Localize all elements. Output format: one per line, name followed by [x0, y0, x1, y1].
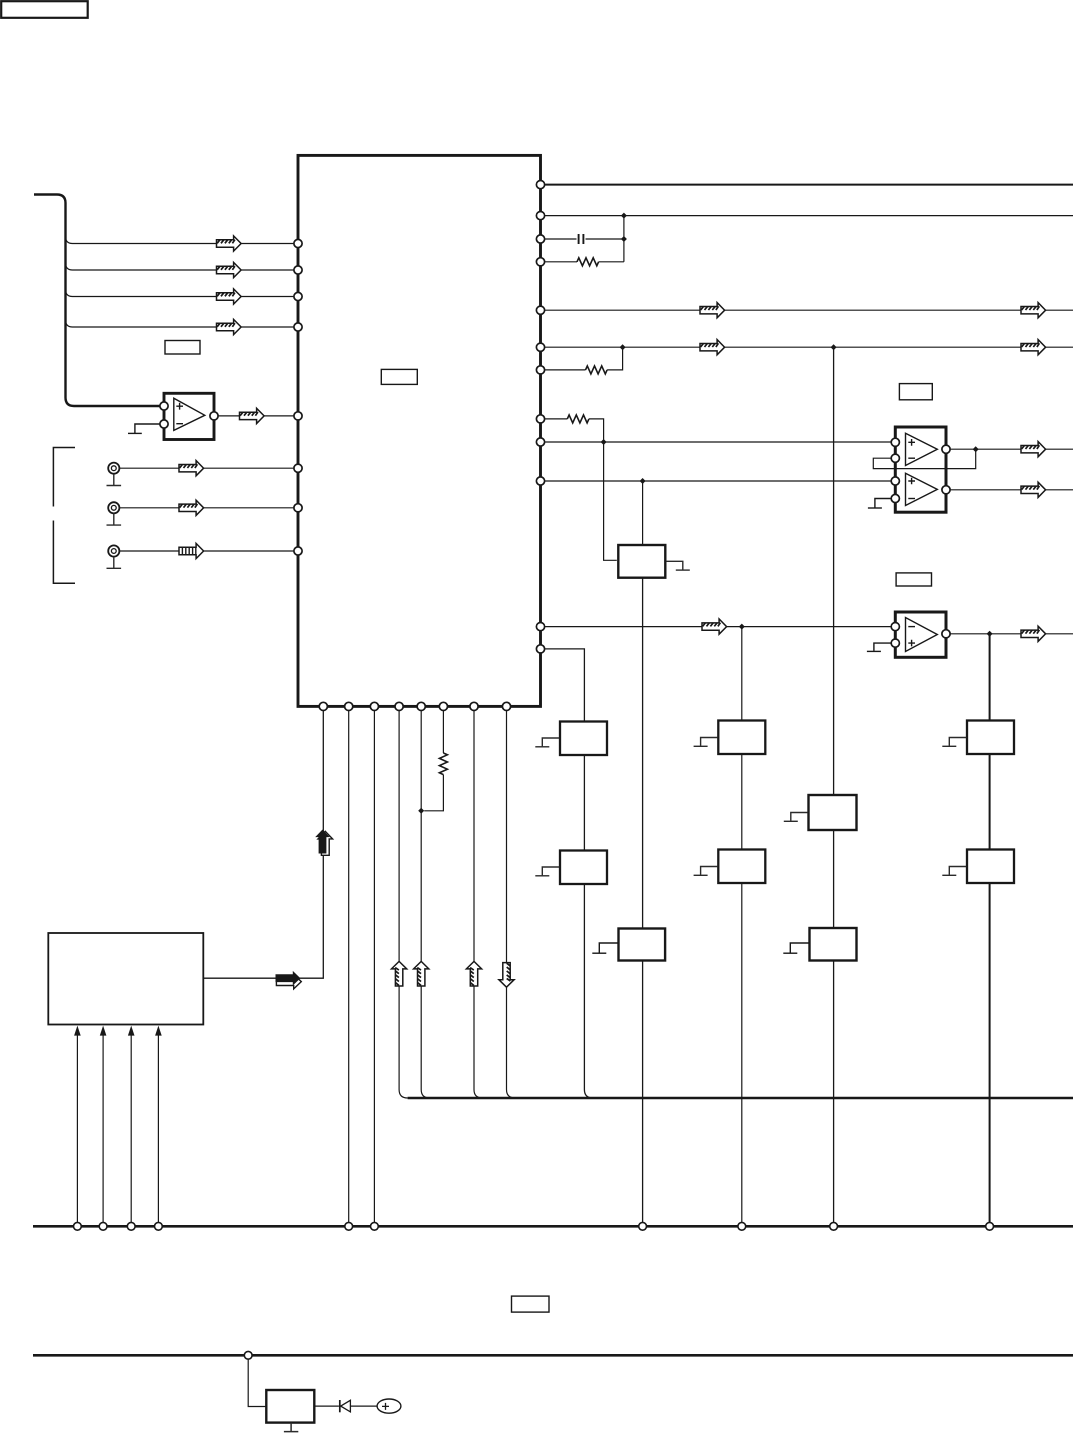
RCA jack J2	[108, 502, 119, 513]
wire: PS block to diode D1	[315, 1405, 339, 1407]
signal arrow on line B right	[1021, 340, 1046, 355]
signal arrow on U2b output	[1021, 482, 1046, 497]
signal arrow up on pin4 line	[392, 961, 407, 986]
signal arrow on branch 4	[217, 319, 242, 334]
IC left pin 2	[294, 266, 302, 274]
signal arrow on U2a output	[1021, 442, 1046, 457]
IC bottom pin b4	[395, 702, 403, 710]
resistor R4 on bottom pin 6	[424, 711, 443, 811]
resistor R2 branch	[545, 347, 623, 370]
ground at J3	[107, 557, 122, 569]
junction of feedback on U2a output	[973, 446, 979, 452]
wire: column from line E junction down	[741, 627, 743, 1223]
title box	[1, 1, 88, 18]
IC right pin r12	[536, 645, 544, 653]
op-amp U3 pin -	[891, 623, 899, 631]
op-amp U2a pin -	[891, 454, 899, 462]
supply rail (mid thick line)	[408, 1097, 1073, 1100]
IC left pin 3	[294, 292, 302, 300]
capacitor block C18	[619, 929, 666, 961]
signal arrow on J2 wire	[179, 500, 204, 515]
op-amp U1 box	[164, 393, 214, 439]
wire: branch 2 from rail to IC pin	[66, 263, 294, 270]
ground at C13	[942, 738, 966, 747]
signal arrow down on pin8 line	[499, 963, 514, 988]
resistor R3 branch	[545, 419, 617, 560]
op-amp U1 minus mark	[176, 423, 183, 425]
battery plus terminal B1	[377, 1399, 401, 1413]
op-amp U3 pin +	[891, 639, 899, 647]
junction on line D feeding capacitor block K1	[640, 478, 646, 484]
IC bottom pin b1	[319, 702, 327, 710]
wire: signal line A to right edge	[545, 309, 1073, 311]
power line bottom	[33, 1354, 1073, 1357]
bus node 2	[99, 1222, 107, 1230]
wire: bottom pin 1 down and left to MCU	[203, 711, 323, 979]
ground at C15	[535, 867, 559, 876]
wire: bus to MCU input 3	[130, 1035, 132, 1222]
IC bottom pin b5	[417, 702, 425, 710]
wire: line E to op-amp U3	[545, 626, 892, 628]
wire: branch 3 from rail to IC pin	[66, 290, 294, 297]
op-amp U3 output pin	[942, 630, 950, 638]
capacitor C1 row	[545, 238, 624, 240]
IC right pin r9	[536, 438, 544, 446]
IC bottom pin b7	[470, 702, 478, 710]
op-amp U3 box	[895, 612, 946, 657]
bus node 5	[345, 1222, 353, 1230]
op-amp U2a triangle	[906, 433, 938, 465]
IC left pin 5	[294, 412, 302, 420]
capacitor block C11	[560, 722, 607, 756]
ground at C12	[694, 738, 718, 747]
direction arrow (shadow style) up on pin1 line	[315, 830, 332, 856]
bus node 4	[155, 1222, 163, 1230]
op-amp U1 input pin +	[160, 402, 168, 410]
IC right pin r6	[536, 343, 544, 351]
IC right pin r8	[536, 415, 544, 423]
signal arrow on branch 1	[217, 236, 242, 251]
signal arrow on line A right	[1021, 303, 1046, 318]
wire: line C to op-amp U2a	[545, 441, 892, 443]
bus node 6	[371, 1222, 379, 1230]
op-amp U2a pin +	[891, 438, 899, 446]
ground at C19	[783, 943, 809, 953]
IC left pin 8	[294, 547, 302, 555]
IC right pin r2	[536, 212, 544, 220]
RCA jack J3	[108, 545, 119, 556]
RCA jack J1	[108, 463, 119, 474]
IC left pin 7	[294, 504, 302, 512]
IC right pin r4	[536, 258, 544, 266]
op-amp U1 triangle	[174, 398, 205, 430]
signal arrow on line B mid	[700, 340, 725, 355]
IC bottom pin b3	[370, 702, 378, 710]
op-amp U2b output pin	[942, 486, 950, 494]
wire: vertical joining C1/R1 to row 2	[623, 216, 625, 262]
capacitor block C15	[560, 851, 607, 885]
signal arrow on U3 output	[1021, 626, 1046, 641]
IC bottom pin b8	[502, 702, 510, 710]
wire: branch 4 from rail to IC pin	[66, 320, 294, 327]
wire: branch 1 from rail to IC pin	[66, 237, 294, 244]
IC bottom pin b2	[345, 702, 353, 710]
signal arrow on branch 3	[217, 289, 242, 304]
wire: power line to PS block	[248, 1359, 265, 1406]
signal arrow on J3 wire	[179, 543, 204, 558]
op-amp U2a output pin	[942, 445, 950, 453]
wire: line D to op-amp U2b	[545, 480, 892, 482]
capacitor block C12	[718, 721, 765, 755]
ground at C16	[694, 867, 718, 876]
power line node	[244, 1351, 252, 1359]
IC left pin 6	[294, 464, 302, 472]
signal arrow on U1 output	[240, 408, 265, 423]
direction arrow (shadow style) right on MCU output wire	[276, 971, 302, 989]
IC right pin r11	[536, 623, 544, 631]
op-amp U2a minus mark	[908, 457, 915, 459]
wire: U1 output to IC	[218, 415, 294, 417]
op-amp U2b minus mark	[908, 498, 915, 500]
ground at C17	[942, 867, 966, 876]
wire: block K1 down to bus	[642, 578, 644, 1223]
wire: bus to MCU input 1	[76, 1035, 78, 1222]
bus node 3	[127, 1222, 135, 1230]
capacitor block C16	[718, 850, 765, 884]
resistor R1 row	[545, 261, 624, 263]
label box above U2	[899, 384, 932, 400]
op-amp U2b pin -	[891, 494, 899, 502]
control bus line	[33, 1225, 1073, 1228]
wire: J2 to IC	[119, 507, 294, 509]
wire: bottom pin 2 down to bus	[348, 711, 350, 1223]
wire: bottom pin 4 down to supply rail	[399, 711, 408, 1099]
junction on U3 output	[987, 631, 993, 637]
IC right pin r1	[536, 181, 544, 189]
ground at C18	[592, 943, 618, 953]
capacitor block K1	[618, 545, 665, 578]
op-amp U1 output pin	[210, 412, 218, 420]
op-amp U2b triangle	[906, 473, 938, 505]
op-amp U2b pin +	[891, 477, 899, 485]
capacitor block C17	[967, 850, 1014, 884]
wire: bottom pin 5 down to supply rail	[421, 711, 430, 1099]
wire: IC right pin row 2	[545, 215, 1073, 217]
wire: bus to MCU input 2	[102, 1035, 104, 1222]
op-amp U1 input pin -	[160, 420, 168, 428]
bus node 8	[738, 1222, 746, 1230]
wire: line F turning down into column	[545, 649, 593, 1098]
wire: signal line B to right edge	[545, 346, 1073, 348]
wire: U2a feedback loop	[873, 449, 975, 468]
ground below PS block	[284, 1423, 298, 1432]
junction of R3 on line C	[601, 439, 607, 445]
ground at C14	[784, 813, 808, 822]
IC right pin r5	[536, 306, 544, 314]
signal arrow on line E	[702, 619, 727, 634]
diode D1	[339, 1400, 341, 1412]
op-amp U3 plus mark	[908, 640, 915, 647]
op-amp U3 minus mark	[908, 626, 915, 628]
IC right pin r3	[536, 235, 544, 243]
op-amp U1 plus mark	[176, 403, 183, 410]
IC right pin r7	[536, 366, 544, 374]
op-amp U2a plus mark	[908, 439, 915, 446]
label box above U3	[896, 573, 931, 586]
wire: U3 output to edge	[950, 633, 1073, 635]
junction on C1 row	[621, 236, 627, 242]
wire: column from U3 output junction down	[989, 634, 991, 1223]
wire: thick input rail from left edge curving down to op-amp U1	[34, 195, 160, 407]
IC U10 main block	[298, 155, 541, 706]
junction on row 2	[621, 213, 627, 219]
signal arrow on branch 2	[217, 262, 242, 277]
wire: bottom pin 7 down to supply rail	[474, 711, 483, 1099]
IC U10 label box	[381, 369, 417, 384]
signal arrow on J1 wire	[179, 461, 204, 476]
wire: U2b output to edge	[950, 489, 1073, 491]
junction of C-column on line B	[831, 344, 837, 350]
junction of R2 on line B	[620, 344, 626, 350]
wire: diode to battery symbol	[350, 1405, 377, 1407]
MCU block U20	[48, 933, 203, 1025]
bus node 1	[74, 1222, 82, 1230]
ground at U1 inverting input	[135, 424, 160, 433]
wire: bottom pin 3 down to bus	[373, 711, 375, 1223]
signal arrow up on pin7 line	[466, 961, 481, 986]
signal arrow up on pin5 line	[414, 961, 429, 986]
op-amp U2 box	[895, 427, 946, 512]
bus node 7	[639, 1222, 647, 1230]
wire: bottom pin 8 down to supply rail	[507, 711, 516, 1099]
label box bottom	[512, 1296, 550, 1312]
wire: middle column from line B junction down	[833, 347, 835, 1222]
wire: U2a output to edge	[950, 448, 1073, 450]
IC bottom pin b6	[439, 702, 447, 710]
capacitor block C19	[810, 928, 857, 961]
IC right pin r10	[536, 477, 544, 485]
ground at J2	[107, 513, 122, 525]
PS block U30	[266, 1390, 314, 1423]
capacitor block C13	[967, 721, 1014, 755]
ground at C11	[535, 738, 559, 747]
wire: J1 to IC	[119, 467, 294, 469]
wire: IC right pin to edge (thick)	[545, 184, 1073, 186]
op-amp U2b plus mark	[908, 478, 915, 485]
ground at K1 right	[666, 561, 690, 570]
IC left pin 4	[294, 323, 302, 331]
wire: J3 to IC	[119, 550, 294, 552]
junction of R4 branch on pin5 line	[418, 808, 424, 814]
ground at U2b inverting input	[875, 499, 892, 508]
input group bracket	[53, 448, 75, 584]
wire: bus to MCU input 4	[157, 1035, 159, 1222]
IC left pin 1	[294, 239, 302, 247]
junction on line E	[739, 624, 745, 630]
signal arrow on line A mid	[700, 303, 725, 318]
wire: junction down to block K1	[642, 481, 644, 545]
ground at J1	[107, 474, 122, 486]
bus node 9	[830, 1222, 838, 1230]
op-amp U3 triangle	[906, 618, 938, 652]
bus node 10	[986, 1222, 994, 1230]
label box L1	[165, 341, 200, 355]
capacitor block C14 (middle column)	[809, 795, 857, 830]
ground at U3 non-inverting input	[874, 643, 892, 651]
